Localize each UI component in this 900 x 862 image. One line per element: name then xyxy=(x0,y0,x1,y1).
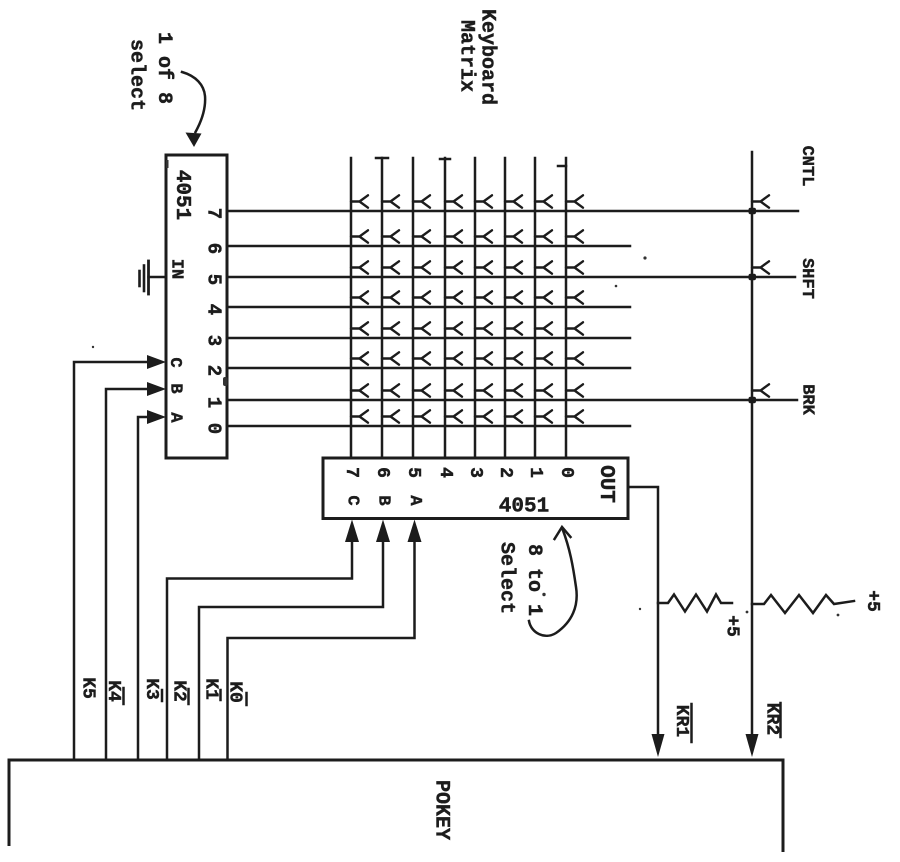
arrowhead into U2 pin A xyxy=(408,520,422,543)
key switch R2-C7 xyxy=(351,352,368,364)
svg-text:K1: K1 xyxy=(201,678,221,700)
svg-text:K0: K0 xyxy=(225,681,245,703)
key switch R7-C4 xyxy=(445,195,462,207)
wire row pin 4 of U1 xyxy=(227,306,630,309)
key switch R5-C3 xyxy=(475,261,492,273)
key switch R0-C7 xyxy=(351,410,368,422)
wire matrix column 5 xyxy=(412,158,415,458)
wire K2: POKEY to U2 pin C xyxy=(167,541,352,759)
key switch on BRK line xyxy=(752,384,769,396)
svg-text:KR2: KR2 xyxy=(762,703,782,735)
svg-text:3: 3 xyxy=(465,467,485,478)
svg-text:IN: IN xyxy=(167,259,186,279)
key switch R3-C6 xyxy=(382,322,399,334)
resistor R2 (KR2 pull-up) xyxy=(752,595,854,613)
key switch R3-C1 xyxy=(535,322,552,334)
key switch R2-C5 xyxy=(413,352,430,364)
key switch R3-C5 xyxy=(413,322,430,334)
overline of K0 xyxy=(245,693,248,705)
svg-text:2: 2 xyxy=(203,365,225,376)
key switch R2-C2 xyxy=(505,352,522,364)
key switch R7-C5 xyxy=(413,195,430,207)
wire KR2 vertical (CNTL/SHFT/BRK common) xyxy=(751,152,754,735)
svg-text:8 to 1: 8 to 1 xyxy=(522,544,545,616)
key switch R3-C0 xyxy=(566,322,583,334)
svg-text:5: 5 xyxy=(403,467,423,478)
key switch R6-C4 xyxy=(445,230,462,242)
wire K0: POKEY to U2 pin A xyxy=(228,541,415,759)
svg-text:3: 3 xyxy=(203,335,225,346)
svg-text:B: B xyxy=(374,495,393,505)
key switch R5-C0 xyxy=(566,261,583,273)
svg-text:B: B xyxy=(166,383,185,393)
key switch R7-C7 xyxy=(351,195,368,207)
key switch R0-C0 xyxy=(566,410,583,422)
key switch R7-C6 xyxy=(382,195,399,207)
key switch R6-C3 xyxy=(475,230,492,242)
overline of KR1 xyxy=(690,704,693,742)
key switch R0-C2 xyxy=(505,410,522,422)
svg-text:4051: 4051 xyxy=(170,170,193,220)
wire row pin 1 of U1 xyxy=(227,399,797,402)
wire matrix column 0 xyxy=(565,158,568,458)
svg-text:Select: Select xyxy=(495,542,518,614)
svg-text:Keyboard: Keyboard xyxy=(476,9,499,105)
svg-text:1: 1 xyxy=(203,397,225,408)
key switch R4-C5 xyxy=(413,291,430,303)
arrowhead into U2 pin C xyxy=(345,520,359,543)
scan speckles xyxy=(92,160,840,616)
key switch R6-C1 xyxy=(535,230,552,242)
wire row pin 3 of U1 xyxy=(227,337,630,340)
key switch R6-C5 xyxy=(413,230,430,242)
key switch R5-C2 xyxy=(505,261,522,273)
wire row pin 2 of U1 xyxy=(227,367,630,370)
overline of KR2 xyxy=(779,703,782,737)
op-amp U3: POKEY body xyxy=(9,760,783,852)
wire U2 OUT to KR1 xyxy=(628,487,658,735)
key switch R3-C7 xyxy=(351,322,368,334)
overline of K2 xyxy=(187,689,190,704)
curved arrow from "8 to 1 Select" to U2 xyxy=(529,527,577,636)
svg-text:BRK: BRK xyxy=(798,384,817,415)
wire K5: POKEY to U1 pin C xyxy=(74,362,148,759)
wire matrix column 2 xyxy=(504,158,507,458)
svg-text:A: A xyxy=(405,495,424,506)
arrowhead into U1 pin C xyxy=(147,355,166,369)
svg-text:2: 2 xyxy=(495,467,515,478)
key switch R1-C1 xyxy=(535,384,552,396)
key switch R5-C5 xyxy=(413,261,430,273)
key switch R0-C5 xyxy=(413,410,430,422)
svg-text:select: select xyxy=(125,39,148,111)
key switch R7-C2 xyxy=(505,195,522,207)
wire row pin 7 of U1 xyxy=(227,210,798,213)
key switch R0-C6 xyxy=(382,410,399,422)
key switch R1-C3 xyxy=(475,384,492,396)
svg-text:1 of 8: 1 of 8 xyxy=(152,32,175,104)
arrowhead KR1 into POKEY xyxy=(652,734,665,757)
key switch R0-C4 xyxy=(445,410,462,422)
key switch R0-C1 xyxy=(535,410,552,422)
key switch R5-C1 xyxy=(535,261,552,273)
svg-text:K5: K5 xyxy=(78,677,98,699)
key switch R6-C0 xyxy=(566,230,583,242)
wire K4: POKEY to U1 pin B xyxy=(106,389,148,759)
svg-text:A: A xyxy=(166,412,185,423)
arrowhead into U2 pin B xyxy=(376,520,390,543)
key switch R7-C1 xyxy=(535,195,552,207)
key switch on CNTL line xyxy=(752,195,769,207)
wire row pin 6 of U1 xyxy=(227,245,630,248)
svg-text:+5: +5 xyxy=(722,615,742,637)
svg-text:6: 6 xyxy=(372,467,392,478)
ground xyxy=(140,261,149,294)
key switch R4-C1 xyxy=(535,291,552,303)
key switch R1-C2 xyxy=(505,384,522,396)
svg-text:4: 4 xyxy=(203,304,225,315)
wire matrix column 7 xyxy=(350,158,353,458)
curved arrow from "1 of 8 select" to U1 xyxy=(182,72,205,147)
key switch R1-C4 xyxy=(445,384,462,396)
svg-text:7: 7 xyxy=(203,208,225,219)
junction SHFT/KR2 xyxy=(749,274,757,281)
wire matrix column 4 xyxy=(444,158,447,458)
svg-text:4051: 4051 xyxy=(499,496,549,519)
wire from U1 IN pin to ground xyxy=(149,276,167,279)
key switch R6-C2 xyxy=(505,230,522,242)
overline of K3 xyxy=(161,690,164,701)
svg-text:4: 4 xyxy=(435,467,455,478)
svg-text:6: 6 xyxy=(203,243,225,254)
svg-text:OUT: OUT xyxy=(594,465,617,503)
op-amp U1: 4051 1-of-8 demultiplexer body xyxy=(166,155,227,458)
key switch R3-C3 xyxy=(475,322,492,334)
key switch R3-C2 xyxy=(505,322,522,334)
key switch R2-C3 xyxy=(475,352,492,364)
key switch R2-C0 xyxy=(566,352,583,364)
svg-text:K4: K4 xyxy=(103,680,123,702)
svg-text:KR1: KR1 xyxy=(671,705,691,738)
op-amp U2: 4051 8-to-1 selector body xyxy=(323,458,628,519)
junction CNTL/KR2 xyxy=(749,208,757,215)
key switch R2-C1 xyxy=(535,352,552,364)
key switch R1-C0 xyxy=(566,384,583,396)
overline of K1 xyxy=(219,690,222,700)
key switch R1-C5 xyxy=(413,384,430,396)
arrowhead into U1 pin B xyxy=(147,382,166,396)
key switch R3-C4 xyxy=(445,322,462,334)
wire K3: POKEY to U1 pin A xyxy=(138,417,148,759)
key switch R2-C6 xyxy=(382,352,399,364)
arrowhead into U1 pin A xyxy=(147,410,166,424)
key switch R4-C0 xyxy=(566,291,583,303)
key switch R5-C4 xyxy=(445,261,462,273)
wire K1: POKEY to U2 pin B xyxy=(199,541,383,759)
svg-text:0: 0 xyxy=(556,467,576,478)
key switch R4-C2 xyxy=(505,291,522,303)
svg-text:+5: +5 xyxy=(862,590,882,612)
key switch R6-C7 xyxy=(351,230,368,242)
junction BRK/KR2 xyxy=(749,397,757,404)
key switch R4-C3 xyxy=(475,291,492,303)
key switch R1-C6 xyxy=(382,384,399,396)
svg-text:C: C xyxy=(343,495,362,505)
key switch R7-C0 xyxy=(566,195,583,207)
wire row pin 5 of U1 xyxy=(227,276,795,279)
key switch R4-C7 xyxy=(351,291,368,303)
svg-text:5: 5 xyxy=(203,274,225,285)
svg-text:1: 1 xyxy=(525,467,545,478)
key switch R0-C3 xyxy=(475,410,492,422)
key switch R2-C4 xyxy=(445,352,462,364)
svg-text:0: 0 xyxy=(203,423,225,434)
svg-text:CNTL: CNTL xyxy=(797,146,816,187)
column top tick marks xyxy=(376,158,566,166)
key switch R4-C4 xyxy=(445,291,462,303)
key switch R6-C6 xyxy=(382,230,399,242)
svg-text:C: C xyxy=(165,357,184,367)
overline of K4 xyxy=(122,688,125,704)
svg-text:7: 7 xyxy=(341,467,361,478)
svg-text:K3: K3 xyxy=(141,678,161,700)
wire row pin 0 of U1 xyxy=(227,425,630,428)
key switch R4-C6 xyxy=(382,291,399,303)
key switch R1-C7 xyxy=(351,384,368,396)
wire matrix column 1 xyxy=(534,158,537,458)
key switch on SHFT line xyxy=(752,261,769,273)
key switch R7-C3 xyxy=(475,195,492,207)
svg-text:K2: K2 xyxy=(169,680,189,702)
resistor R1 (KR1 pull-up) xyxy=(658,595,732,612)
key switch R5-C6 xyxy=(382,261,399,273)
wire matrix column 6 xyxy=(381,158,384,458)
svg-text:POKEY: POKEY xyxy=(430,780,453,840)
arrowhead KR2 into POKEY xyxy=(746,734,759,757)
wire matrix column 3 xyxy=(474,158,477,458)
svg-text:Matrix: Matrix xyxy=(455,20,478,92)
svg-text:SHFT: SHFT xyxy=(797,258,816,299)
key switch R5-C7 xyxy=(351,261,368,273)
